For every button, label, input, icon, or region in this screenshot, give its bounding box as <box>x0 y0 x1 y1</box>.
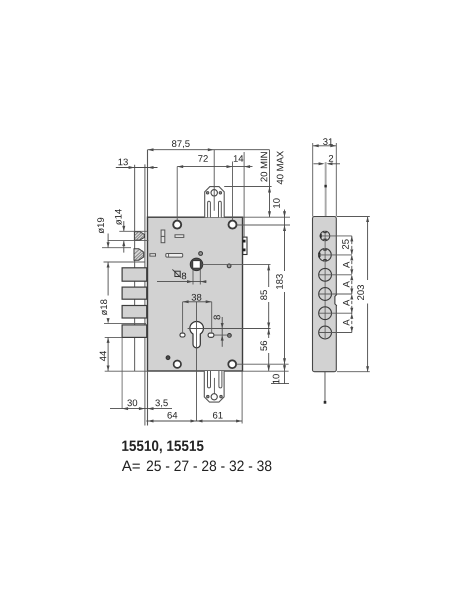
side hole 1 <box>320 231 330 240</box>
label 56 <box>260 341 267 351</box>
label 31 <box>323 138 333 145</box>
label A1 <box>343 262 350 268</box>
dim 20 MIN vertical line <box>269 150 271 218</box>
small pin above follower <box>199 252 203 256</box>
label 30 <box>127 399 137 406</box>
side rod above plate <box>325 162 327 216</box>
follower centerline extension <box>203 263 271 265</box>
dim 85 56 line <box>268 264 270 287</box>
top tab small hole left <box>206 192 209 195</box>
side rod below plate <box>324 372 326 401</box>
label sq8 <box>182 273 186 280</box>
dim 14 extension line right <box>243 152 245 237</box>
cylinder horizontal centerline <box>188 328 271 330</box>
top tab slot right <box>219 201 222 217</box>
label o19 <box>97 218 104 234</box>
side faceplate <box>313 217 337 372</box>
label 44 <box>100 351 107 361</box>
A values list <box>147 461 272 472</box>
pin right of cylinder <box>208 333 214 337</box>
tab top extension line <box>224 186 271 188</box>
side hole 6 <box>319 326 332 339</box>
label 2 <box>329 155 333 162</box>
dim 44 <box>107 337 109 371</box>
label 25 <box>342 239 349 249</box>
dim 2 <box>314 163 323 165</box>
product codes <box>122 440 203 453</box>
dim 183 line <box>284 217 286 271</box>
deadbolt block 2 <box>122 287 147 299</box>
label 72 <box>198 155 208 162</box>
dim square 8 label leader <box>175 271 180 276</box>
label 64 <box>168 412 178 419</box>
label 38 <box>192 294 202 301</box>
screw centerline extension right <box>237 224 290 226</box>
top tab big hole <box>211 190 217 196</box>
screw hole top right <box>229 221 237 229</box>
small pin right mid <box>228 334 232 338</box>
label 40 MAX <box>277 151 284 184</box>
bottom tab slot left <box>208 371 211 388</box>
top tab slot left <box>208 201 211 217</box>
dim 64 61 line <box>146 420 242 422</box>
bottom tab slot right <box>219 371 222 388</box>
side plate centerline <box>324 231 326 338</box>
side hole 4 <box>319 288 332 301</box>
label 10 top <box>273 198 280 207</box>
side rod bottom tip <box>324 401 327 404</box>
label 20 MIN <box>261 152 268 181</box>
dim o18 <box>107 318 110 324</box>
dim 72 and 14 line <box>177 166 252 168</box>
label 14 <box>234 155 244 162</box>
screw hole top left <box>173 221 181 229</box>
body bottom extension line <box>105 370 150 372</box>
lock body <box>148 217 243 371</box>
dim 61 extension right <box>241 371 243 423</box>
left edge tab <box>150 254 156 256</box>
dim 38 <box>183 301 212 303</box>
dim 8 (cylinder to pin) <box>221 317 223 347</box>
dim 72 extension line left <box>176 167 178 221</box>
interior small rect <box>175 235 184 238</box>
dim 87,5 line <box>148 149 270 151</box>
dim 13 line <box>116 167 158 169</box>
label 85 <box>260 290 267 300</box>
hole bottom left <box>174 361 181 368</box>
dim 30 and 3,5 line <box>110 408 172 410</box>
bottom screw centerline extension <box>237 363 289 365</box>
label 10 bottom <box>273 374 280 383</box>
faceplate right edge line <box>144 164 146 425</box>
label 13 <box>118 159 127 166</box>
label 61 <box>213 412 223 419</box>
label o18 <box>100 300 107 316</box>
follower square extension lines <box>192 270 194 285</box>
dim 72 extension line right <box>232 162 234 221</box>
dim o19 <box>107 234 109 248</box>
dim 10 top arrows <box>283 211 286 217</box>
body left extension line <box>147 150 149 426</box>
dim o14 <box>123 221 125 231</box>
label 3,5 <box>155 399 167 407</box>
bottom tab (latch guide plate) <box>204 371 224 402</box>
dim A chain line <box>351 236 353 333</box>
bottom tab small hole right <box>220 395 223 398</box>
screw hole bottom right <box>228 360 236 368</box>
interior double cell slot <box>161 230 165 243</box>
bottom tab big hole <box>211 394 217 400</box>
cylinder vertical centerline <box>196 302 198 421</box>
follower (square spindle hub) <box>190 258 203 271</box>
side hole 2 <box>319 249 332 261</box>
label A4 <box>343 319 350 325</box>
side hole 5 <box>319 307 332 320</box>
side hole centerlines extensions <box>318 236 352 333</box>
round bolt pin 1 (o14) <box>134 232 144 240</box>
deadbolt block 4 <box>122 325 147 338</box>
pin left of cylinder <box>180 333 185 337</box>
label A2 <box>343 281 350 287</box>
deadbolt block 1 <box>122 268 147 281</box>
label 8 vert <box>214 315 221 319</box>
A values prefix <box>122 461 140 471</box>
label A3 <box>343 300 350 306</box>
top tab centerline <box>213 150 215 211</box>
deadbolt blocks left extension <box>121 337 123 408</box>
label 183 <box>276 274 283 289</box>
right edge latch piece <box>243 237 247 254</box>
label 203 <box>357 285 364 300</box>
top tab (latch guide plate) <box>205 187 225 218</box>
interior long slot <box>166 254 183 258</box>
side rod pin dot <box>324 185 326 188</box>
label o14 <box>115 209 122 225</box>
side hole 3 <box>319 268 332 281</box>
body top extension line right <box>243 216 291 218</box>
dim square8 line <box>157 281 206 283</box>
small pin right of follower <box>227 264 231 268</box>
label 87,5 <box>172 140 190 148</box>
side plate edge notch <box>335 295 339 305</box>
bottom tab centerline <box>213 378 215 394</box>
euro cylinder profile <box>190 321 204 347</box>
bottom tab small hole left <box>207 395 210 398</box>
top tab small hole right <box>219 192 222 195</box>
round bolt pin 2 (o19) <box>134 249 144 261</box>
dim 31 <box>313 145 337 147</box>
door edge line left <box>134 165 136 371</box>
small pin bottom left <box>166 356 170 360</box>
dim 203 <box>367 217 369 281</box>
deadbolt block 3 <box>122 306 147 319</box>
